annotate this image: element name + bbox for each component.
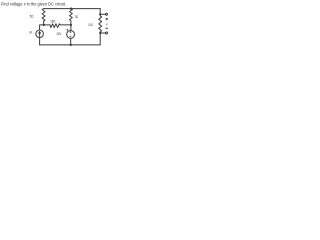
wire middle rail right [61,24,71,26]
svg-text:3Ω: 3Ω [75,15,78,19]
terminal a open circle [106,13,108,15]
junction node top of 3ohm [70,8,72,10]
voltage source V1 circle [67,30,75,38]
wire to voltage source top [70,25,72,31]
voltage source plus mark [70,31,71,32]
resistor 3ohm zigzag [69,9,72,25]
resistor 5ohm zigzag [42,9,45,25]
current source arrow shaft [39,32,41,36]
voltage source minus mark [70,36,71,38]
junction node bottom of 5ohm [43,24,45,26]
svg-text:5Ω: 5Ω [30,14,34,18]
wire left branch upper [40,25,44,30]
voltage source outer plus mark [67,29,68,30]
svg-text:20V: 20V [57,32,62,36]
wire stub to + terminal [100,13,105,15]
plus sign of v [106,18,108,20]
wire voltage source to bottom rail [70,38,72,45]
wire stub to - terminal [100,32,105,34]
junction node bottom of 10ohm [99,32,101,34]
current source I1 circle [36,30,44,38]
wire right edge upper [99,9,101,15]
svg-text:15Ω: 15Ω [50,19,56,23]
current source arrow head [38,31,41,33]
wire right edge lower [99,33,101,45]
wire top rail [44,8,101,10]
svg-text:v: v [106,23,108,27]
svg-text:Find voltage v in the given DC: Find voltage v in the given DC circuit. [1,2,66,7]
resistor 10ohm zigzag [99,14,102,33]
junction node bottom rail [70,44,72,46]
junction node top of 10ohm [99,13,101,15]
wire bottom rail [40,44,101,46]
minus sign of v [106,27,108,29]
wire left branch lower [39,38,41,45]
svg-text:10Ω: 10Ω [88,23,93,27]
terminal b open circle [106,32,108,34]
junction node middle right [70,24,72,26]
wire middle rail left [44,24,50,26]
svg-text:2A: 2A [29,31,32,35]
resistor 15ohm zigzag [50,24,60,28]
